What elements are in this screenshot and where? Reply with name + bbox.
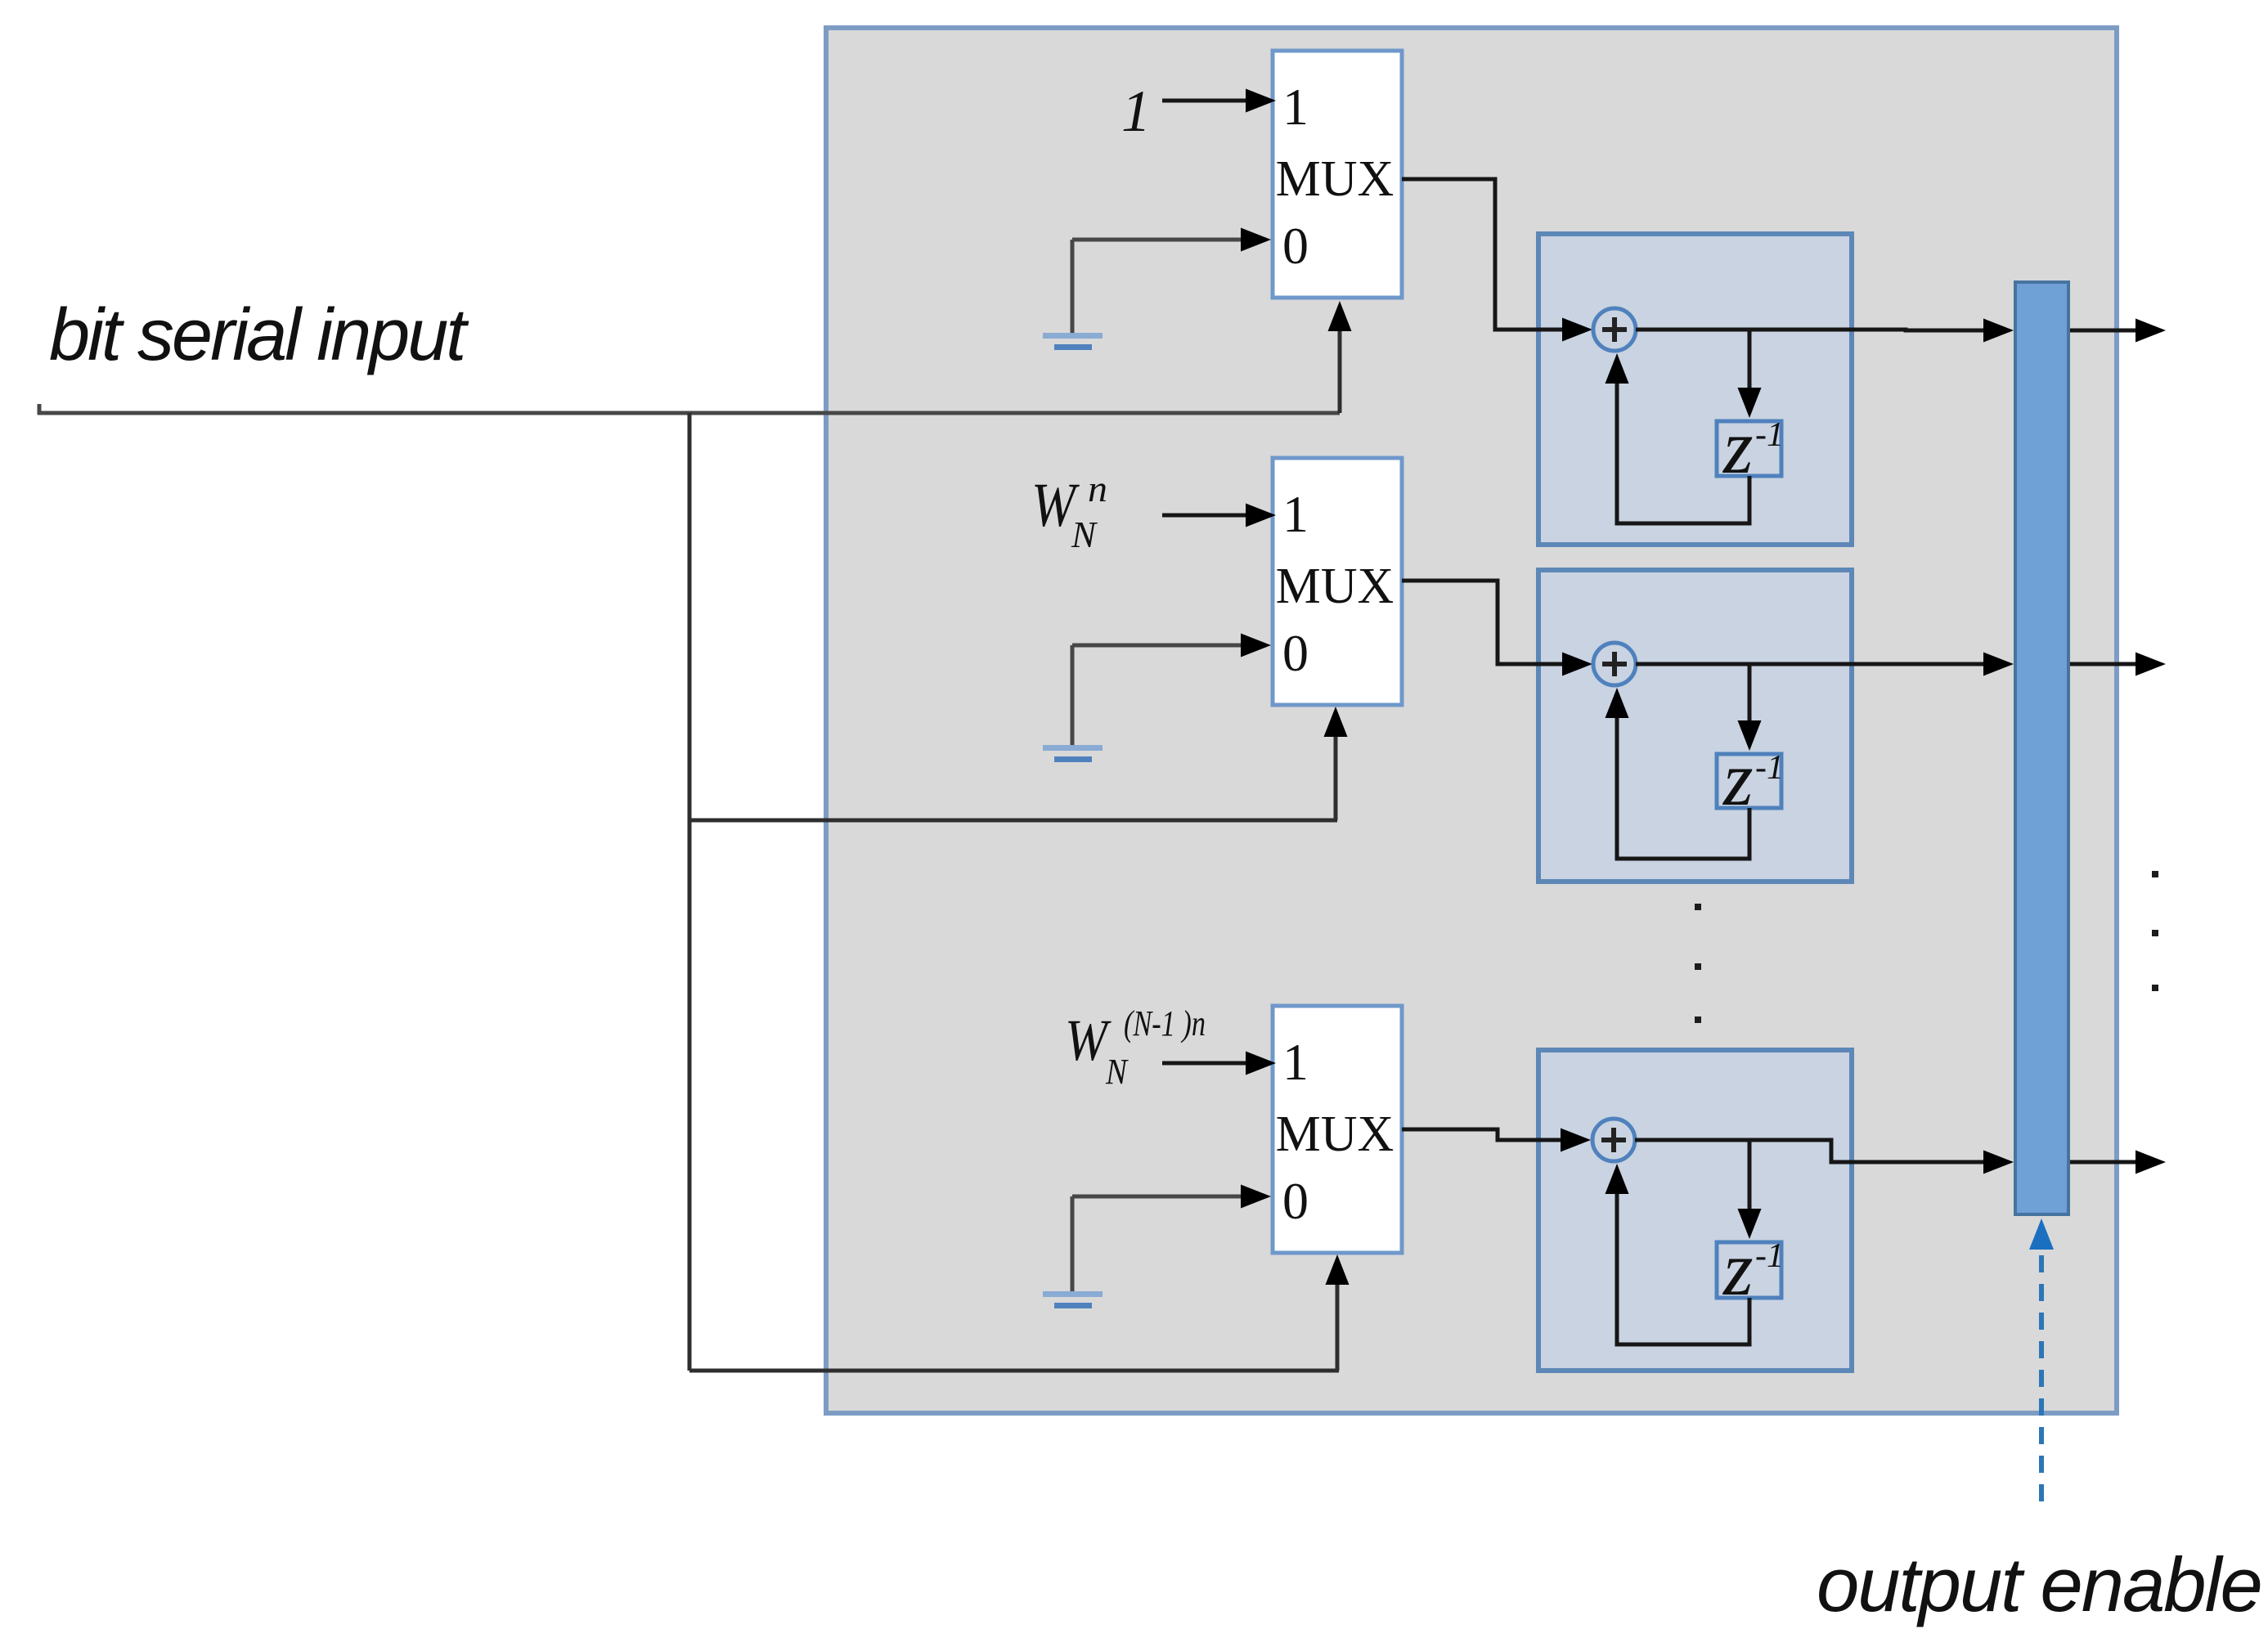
wire: ground to U1 pin 0 bbox=[1072, 238, 1242, 242]
svg-text:1: 1 bbox=[1282, 485, 1309, 543]
wire: adder S1 to output bar bbox=[1636, 330, 1983, 330]
wire: U2 output to adder S2 bbox=[1402, 581, 1562, 664]
svg-text:1: 1 bbox=[1282, 78, 1309, 136]
tri-state output buffer bar bbox=[2015, 282, 2068, 1214]
svg-text:-1: -1 bbox=[1755, 749, 1784, 787]
wire: tap down into delay D3 bbox=[1748, 1140, 1752, 1209]
wire: select into U3 bbox=[689, 1369, 1339, 1373]
wire: feedback D2 to adder S2 bbox=[1617, 716, 1749, 859]
svg-text:1: 1 bbox=[1282, 1033, 1309, 1091]
svg-text:bit serial input: bit serial input bbox=[49, 294, 469, 376]
mux U1 bbox=[1273, 51, 1402, 298]
wire: serial branch down bbox=[688, 413, 692, 1371]
wire: U1 output to adder S1 bbox=[1402, 179, 1562, 330]
wire: tap down into delay D1 bbox=[1748, 330, 1752, 388]
wire: select into U1 bbox=[1338, 329, 1342, 413]
adder S2 bbox=[1593, 643, 1636, 685]
ellipsis dots (output column) bbox=[2152, 871, 2158, 877]
wire: feedback D3 to adder S3 bbox=[1617, 1191, 1749, 1344]
svg-text:W: W bbox=[1065, 1007, 1112, 1073]
delay z^-1 D2 bbox=[1717, 754, 1781, 808]
wire: U3 output to adder S3 bbox=[1402, 1129, 1561, 1140]
svg-text:0: 0 bbox=[1282, 1172, 1309, 1230]
wire: output 2 after bar bbox=[2068, 662, 2136, 666]
adder S3 bbox=[1592, 1119, 1635, 1161]
svg-text:N: N bbox=[1071, 514, 1098, 555]
svg-text:0: 0 bbox=[1282, 624, 1309, 682]
svg-text:1: 1 bbox=[1121, 79, 1151, 144]
wire: select into U2 bbox=[689, 819, 1337, 823]
svg-text:MUX: MUX bbox=[1276, 559, 1394, 614]
svg-text:0: 0 bbox=[1282, 217, 1309, 275]
svg-text:output enable: output enable bbox=[1817, 1542, 2261, 1627]
mux U2 bbox=[1273, 458, 1402, 705]
svg-text:MUX: MUX bbox=[1276, 151, 1394, 207]
svg-text:MUX: MUX bbox=[1276, 1106, 1394, 1162]
module box: bit-serial DFT processing element bbox=[826, 28, 2117, 1413]
wire: ground to U3 pin 0 bbox=[1072, 1195, 1242, 1199]
wire: adder S3 to output bar bbox=[1635, 1140, 1983, 1162]
wire: arrow into U1 pin 1 bbox=[1162, 99, 1246, 103]
svg-text:-1: -1 bbox=[1755, 416, 1784, 454]
svg-text:n: n bbox=[1088, 468, 1107, 509]
svg-text:-1: -1 bbox=[1755, 1237, 1784, 1275]
output enable dashed arrow bbox=[2029, 1218, 2054, 1250]
wire: arrow into U3 pin 1 bbox=[1162, 1061, 1246, 1066]
ground G1 bbox=[1071, 240, 1075, 334]
wire: output 1 after bar bbox=[2068, 329, 2136, 333]
delay z^-1 D3 bbox=[1717, 1242, 1781, 1298]
accumulator block A1 bbox=[1538, 234, 1852, 545]
wire: bit serial input bus bbox=[38, 404, 42, 415]
wire: arrow into U2 pin 1 bbox=[1162, 514, 1246, 518]
wire: adder S2 to output bar bbox=[1636, 662, 1983, 666]
svg-text:(N-1 )n: (N-1 )n bbox=[1124, 1003, 1206, 1043]
wire: tap down into delay D2 bbox=[1748, 664, 1752, 721]
adder S1 bbox=[1593, 308, 1636, 351]
ellipsis dots (middle column) bbox=[1695, 904, 1701, 910]
accumulator block A3 bbox=[1538, 1050, 1852, 1371]
accumulator block A2 bbox=[1538, 570, 1852, 882]
wire: feedback D1 to adder S1 bbox=[1617, 381, 1749, 523]
ground G2 bbox=[1071, 645, 1075, 747]
ground G3 bbox=[1071, 1196, 1075, 1293]
delay z^-1 D1 bbox=[1717, 421, 1781, 476]
svg-text:N: N bbox=[1105, 1052, 1129, 1092]
wire: output 3 after bar bbox=[2068, 1160, 2136, 1165]
mux U3 bbox=[1273, 1006, 1402, 1253]
wire: ground to U2 pin 0 bbox=[1072, 644, 1242, 648]
